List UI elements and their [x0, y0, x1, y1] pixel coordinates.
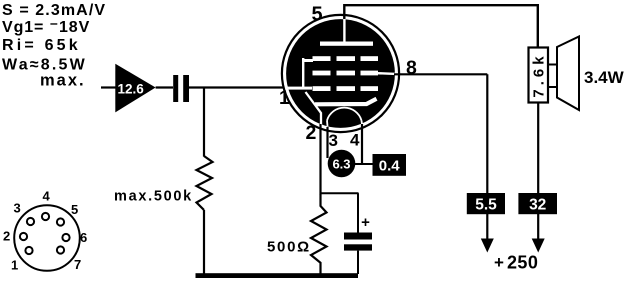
- wire pin 2 cathode down: [319, 124, 321, 194]
- svg-text:0.4: 0.4: [379, 158, 401, 175]
- tube grid row 3 (control grid): [313, 86, 331, 91]
- tube V1 envelope: [282, 15, 399, 132]
- wire heater circle to 0.4 box: [354, 163, 373, 165]
- wire screen down to +250: [486, 74, 488, 240]
- svg-text:7.6k: 7.6k: [531, 52, 548, 97]
- socket pin hole 3: [27, 218, 34, 225]
- wire pin 5 to top: [343, 4, 345, 19]
- socket base diagram circle: [14, 205, 80, 271]
- value box 32: [518, 193, 557, 214]
- speaker: [557, 37, 579, 111]
- wire anode load down to +250: [537, 103, 539, 241]
- tube cathode: [315, 99, 377, 105]
- tube grid row 1: [313, 56, 331, 61]
- socket pin hole 6: [62, 234, 69, 241]
- svg-text:4: 4: [43, 189, 51, 204]
- capacitor C1 coupling: [173, 75, 178, 102]
- svg-text:2: 2: [3, 229, 10, 244]
- resistor 500 ohm cathode: [311, 194, 327, 274]
- heater supply circle 6.3: [328, 150, 356, 178]
- svg-text:3: 3: [329, 131, 338, 150]
- svg-text:7: 7: [74, 257, 81, 272]
- wire cathode branch to capacitor: [320, 192, 359, 194]
- svg-text:max.: max.: [40, 72, 86, 90]
- resistor max.500k: [197, 156, 213, 210]
- svg-text:8: 8: [406, 57, 417, 79]
- svg-text:3.4W: 3.4W: [584, 68, 625, 87]
- load impedance box 7.6k: [529, 48, 549, 103]
- svg-text:5: 5: [71, 202, 78, 217]
- svg-text:+: +: [494, 253, 504, 272]
- wire input lead: [101, 86, 117, 88]
- svg-text:max.500k: max.500k: [114, 189, 193, 205]
- value box 5.5: [467, 193, 505, 214]
- svg-text:S = 2.3mA/V: S = 2.3mA/V: [2, 2, 106, 19]
- svg-text:1: 1: [279, 88, 290, 109]
- socket pin hole 5: [57, 218, 64, 225]
- svg-text:2: 2: [306, 122, 317, 144]
- wire top anode run: [344, 5, 538, 48]
- svg-text:12.6: 12.6: [118, 82, 145, 97]
- wire pin 3 heater lead: [326, 127, 328, 158]
- wire resistor to bottom bus: [203, 210, 205, 275]
- socket pin hole 7: [57, 246, 64, 253]
- wire triangle to capacitor: [156, 86, 173, 88]
- tube grid exit to pin 1: [286, 87, 312, 90]
- svg-text:Vg1= ⁻18V: Vg1= ⁻18V: [2, 19, 90, 36]
- tube anode lead (pin 5, white inside): [343, 19, 345, 43]
- tube heater arc: [327, 108, 362, 121]
- socket pin hole 4: [42, 213, 49, 220]
- svg-text:1: 1: [11, 258, 18, 273]
- svg-text:5.5: 5.5: [475, 197, 497, 214]
- svg-text:4: 4: [350, 130, 360, 149]
- tube grid left rail: [302, 58, 304, 89]
- wire screen grid pin 8 run: [394, 73, 487, 75]
- wire bottom bus (thick): [196, 273, 359, 278]
- svg-text:6: 6: [80, 230, 87, 245]
- arrow to +250 (screen): [481, 239, 494, 253]
- svg-text:6.3: 6.3: [332, 157, 350, 172]
- svg-text:5: 5: [312, 3, 323, 25]
- svg-text:250: 250: [507, 253, 538, 273]
- socket pin hole 2: [20, 233, 27, 240]
- svg-text:Ri= 65k: Ri= 65k: [2, 37, 81, 54]
- arrow to +250 (anode): [532, 239, 545, 253]
- tube grid row 2 (screen): [313, 71, 331, 76]
- input source triangle 12.6: [115, 64, 155, 113]
- wire junction down to grid resistor: [203, 88, 205, 157]
- tube cathode lead to pin 2: [306, 92, 322, 125]
- wire pin 4 heater lead: [361, 124, 363, 165]
- svg-text:32: 32: [529, 197, 546, 214]
- tube anode plate: [320, 42, 373, 46]
- wire capacitor to grid pin 1: [189, 86, 290, 88]
- svg-text:3: 3: [14, 201, 21, 216]
- socket pin hole 1: [25, 247, 32, 254]
- capacitor electrolytic: [357, 193, 359, 233]
- svg-text:+: +: [361, 214, 370, 231]
- svg-text:500Ω: 500Ω: [267, 239, 311, 256]
- value box 0.4: [373, 154, 407, 176]
